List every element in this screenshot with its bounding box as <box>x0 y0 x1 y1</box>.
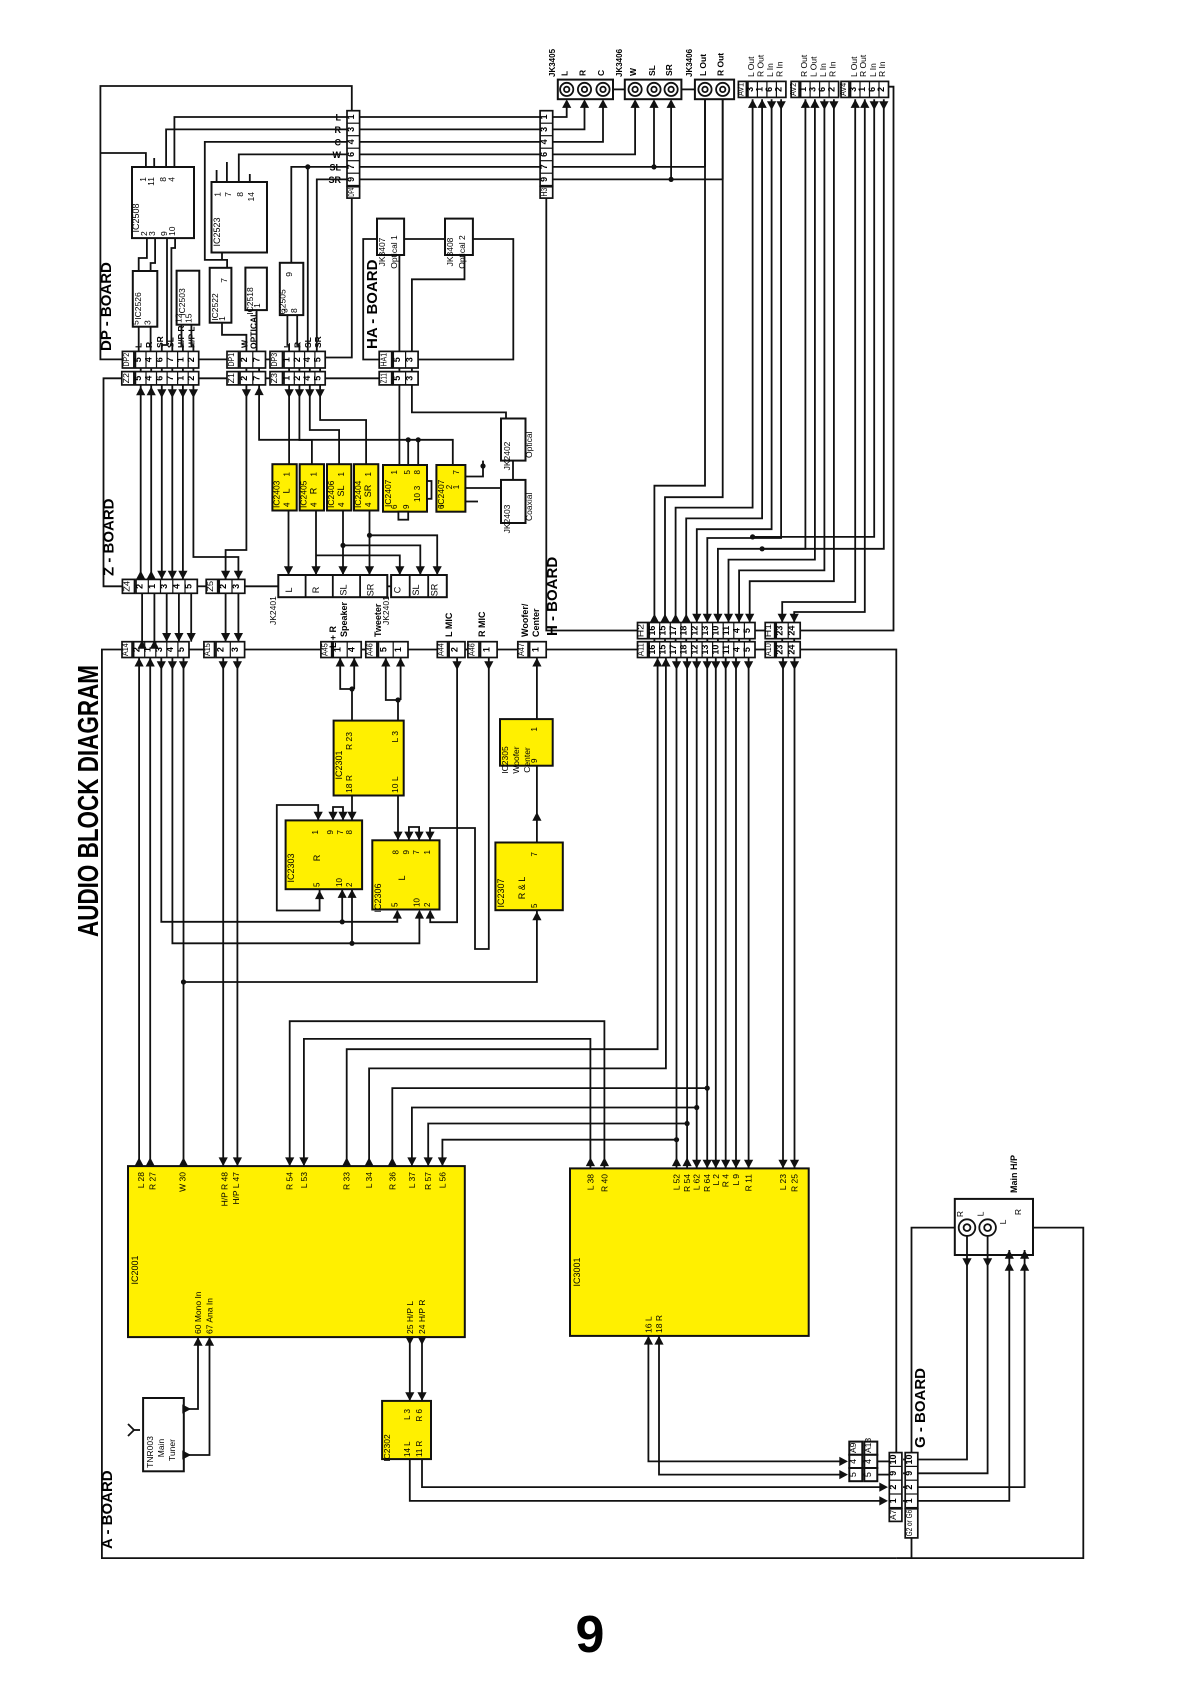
svg-text:4: 4 <box>732 647 742 652</box>
wire A14 cell2 to IC2001 L28 <box>138 658 140 1167</box>
connector A46 (R MIC) <box>468 642 479 658</box>
svg-text:L In: L In <box>765 63 775 77</box>
svg-text:A44: A44 <box>435 643 445 656</box>
wire IC3001 16L to A9 cell4 <box>648 1336 843 1462</box>
svg-text:5: 5 <box>530 903 539 908</box>
svg-text:16: 16 <box>647 626 657 636</box>
svg-text:L 52: L 52 <box>672 1174 682 1191</box>
svg-text:Main H/P: Main H/P <box>1009 1155 1019 1193</box>
svg-text:23: 23 <box>775 645 785 655</box>
svg-text:7: 7 <box>346 164 356 169</box>
svg-text:R 54: R 54 <box>682 1174 692 1192</box>
wire run IC2001 L56 junction <box>442 1140 676 1166</box>
svg-text:L: L <box>976 1211 986 1216</box>
svg-text:L 23: L 23 <box>778 1174 788 1191</box>
svg-text:1: 1 <box>175 357 185 362</box>
svg-text:HA1: HA1 <box>378 353 388 367</box>
wire ties A9-A13-A7 row5 <box>862 1474 864 1476</box>
wire IC2508 pins 1,11 stubs <box>100 153 145 167</box>
svg-text:10 L: 10 L <box>390 776 400 793</box>
svg-text:L 34: L 34 <box>364 1172 374 1189</box>
svg-text:Z2: Z2 <box>121 373 131 384</box>
wire G6 cell9 to Main HP L jack <box>918 1236 988 1473</box>
wire ties DP2-Z2 <box>140 368 142 372</box>
wire IC2508 pin8 to DP4 row R <box>166 129 347 167</box>
svg-text:R MIC: R MIC <box>477 611 487 637</box>
connector A47 <box>518 642 528 658</box>
svg-text:JK2403: JK2403 <box>502 504 512 533</box>
connector Z2 <box>122 372 134 385</box>
IC2405 (R) <box>300 464 324 510</box>
svg-text:L Out: L Out <box>698 54 708 76</box>
wire H3 row9 to SR and R Out <box>553 178 723 180</box>
wire AV4 L In loop <box>753 99 875 537</box>
svg-text:5: 5 <box>133 357 143 362</box>
svg-text:18: 18 <box>679 626 689 636</box>
svg-text:AUDIO BLOCK DIAGRAM: AUDIO BLOCK DIAGRAM <box>73 665 105 937</box>
wire run IC2001 R36 junction <box>392 1088 707 1166</box>
wire A15 cell3 to IC2001 HPL47 <box>236 658 238 1167</box>
connector Z11 <box>379 372 392 385</box>
Z-board frame <box>104 378 123 586</box>
svg-text:R: R <box>578 70 588 76</box>
wire G6 cell10 to Main HP R jack <box>918 1236 967 1460</box>
svg-text:2: 2 <box>876 87 886 92</box>
svg-text:3: 3 <box>404 357 414 362</box>
wire IC2508 pin9 to DP2 cell6 <box>162 238 167 351</box>
wire stub IC2303 pin2 <box>351 890 353 943</box>
IC2306 <box>372 840 439 909</box>
svg-text:7: 7 <box>252 357 262 362</box>
svg-text:10: 10 <box>710 645 720 655</box>
wire JK2402 to JK2403 tie <box>512 461 514 480</box>
svg-text:1: 1 <box>337 471 346 476</box>
svg-text:5: 5 <box>313 357 323 362</box>
connector H2 <box>638 623 648 639</box>
HA-board frame <box>363 239 513 360</box>
IC2505 <box>280 263 304 315</box>
wire IC2303 feedback loop <box>277 805 320 911</box>
svg-text:IC2404: IC2404 <box>353 480 363 508</box>
svg-text:SR: SR <box>430 583 440 596</box>
wire rows DP4 to H3 <box>360 116 540 118</box>
jack group JK3406 <box>695 80 734 100</box>
wire L Out jack down <box>704 99 706 167</box>
svg-text:R 36: R 36 <box>387 1172 397 1190</box>
svg-text:9: 9 <box>904 1471 914 1476</box>
svg-text:7: 7 <box>165 357 175 362</box>
svg-text:4: 4 <box>171 584 181 589</box>
wire run IC2001 R57 junction <box>428 1124 687 1167</box>
wire IC2505 pins 3,8 to DP3 <box>287 315 289 351</box>
antenna symbol <box>128 1424 134 1436</box>
svg-text:R 54: R 54 <box>285 1172 295 1190</box>
wire AV fan 3 <box>676 99 753 622</box>
JK3408 Optical 2 <box>445 219 473 255</box>
connector H1 <box>765 623 775 639</box>
svg-text:SL: SL <box>647 65 657 76</box>
svg-text:L Out: L Out <box>746 56 756 77</box>
svg-text:H/P R 48: H/P R 48 <box>220 1172 230 1207</box>
svg-text:1: 1 <box>390 469 399 474</box>
svg-text:Center: Center <box>531 608 541 637</box>
wire AV fan 8 <box>729 99 815 622</box>
wire jack group links <box>613 88 625 90</box>
svg-text:C: C <box>596 70 606 76</box>
svg-text:HA - BOARD: HA - BOARD <box>364 259 381 349</box>
svg-text:6: 6 <box>154 357 164 362</box>
svg-text:6: 6 <box>817 87 827 92</box>
wire stub IC2303 pin10 <box>341 890 343 922</box>
svg-text:14 L: 14 L <box>403 1441 412 1457</box>
svg-text:6: 6 <box>390 504 399 509</box>
svg-text:3: 3 <box>147 231 157 236</box>
connector AV4 <box>841 81 849 97</box>
jack group JK3405 <box>558 80 613 100</box>
svg-text:SR: SR <box>363 484 373 497</box>
svg-text:Main: Main <box>156 1439 166 1458</box>
connector HA1 <box>379 351 392 368</box>
svg-text:JK3406: JK3406 <box>685 48 694 77</box>
wire A11 cell11 to IC3001 R4 <box>725 658 727 1169</box>
svg-text:17: 17 <box>668 645 678 655</box>
wire IC2307 pin5 run <box>184 910 537 982</box>
wire IC2406 to JK2401 SL and SL2 <box>342 511 344 576</box>
svg-text:A9: A9 <box>848 1442 858 1453</box>
wire A11 cell18 to IC3001 R54 <box>686 658 688 1169</box>
IC2526 <box>133 271 158 327</box>
svg-text:10: 10 <box>167 226 177 236</box>
wire IC2001 HP L to IC2302 <box>409 1337 411 1401</box>
JK3407 Optical 1 <box>377 219 404 255</box>
svg-text:9: 9 <box>284 272 294 277</box>
svg-text:L MIC: L MIC <box>444 612 454 637</box>
svg-text:L 2: L 2 <box>711 1174 721 1186</box>
svg-text:9: 9 <box>530 758 539 763</box>
svg-text:1: 1 <box>282 376 292 381</box>
wire A46 to IC2301 L3 <box>386 658 398 721</box>
wire IC2302 R6 to A7 cell1 <box>410 1459 886 1501</box>
wire A11 cell12 to IC3001 L62 <box>696 658 698 1169</box>
svg-text:6: 6 <box>154 376 164 381</box>
svg-text:4: 4 <box>364 502 373 507</box>
wire IC2405 to JK2401 R and C <box>315 511 317 576</box>
svg-text:Z5: Z5 <box>205 581 215 592</box>
svg-text:23: 23 <box>775 626 785 636</box>
svg-text:L 9: L 9 <box>731 1174 741 1186</box>
wire IC2407-2 pin6 stub <box>466 501 479 503</box>
svg-text:3: 3 <box>230 647 240 652</box>
svg-text:DP - BOARD: DP - BOARD <box>98 262 115 351</box>
wire IC2508 pin3 to IC2526 <box>151 238 156 271</box>
svg-text:R: R <box>955 1211 965 1217</box>
svg-text:3: 3 <box>346 127 356 132</box>
wire A44 to IC2306 pin2 <box>430 658 457 923</box>
svg-text:IC2526: IC2526 <box>133 292 143 320</box>
svg-text:1: 1 <box>175 376 185 381</box>
wire IC2508 pin4 to DP4 row L <box>174 117 347 167</box>
JK2401 speaker connector <box>278 575 387 597</box>
svg-text:C: C <box>392 586 402 593</box>
wire IC2404 to JK2401 SR and SR2 <box>369 511 371 576</box>
svg-text:AV1: AV1 <box>735 83 745 96</box>
svg-text:7: 7 <box>223 192 233 197</box>
svg-text:IC2523: IC2523 <box>212 217 222 246</box>
wire Z1 cell2 to Z5 cell2 <box>226 385 247 580</box>
svg-text:3: 3 <box>807 87 817 92</box>
wire Z1 cell7 OPTICAL to IC2407 DACs <box>259 385 453 465</box>
wire A45 to IC2301 R23 <box>340 658 352 721</box>
wire ties DP1-Z1 <box>245 368 247 372</box>
svg-text:5: 5 <box>313 376 323 381</box>
svg-text:Optical 2: Optical 2 <box>457 235 467 269</box>
wire AV fan 12 <box>794 99 865 622</box>
svg-text:L 56: L 56 <box>437 1172 447 1189</box>
wire G6 cell1 to Main HP L arrow <box>918 1250 1010 1501</box>
connector A13 <box>864 1442 877 1455</box>
svg-text:15: 15 <box>658 626 668 636</box>
svg-text:R 57: R 57 <box>423 1172 433 1190</box>
svg-text:Speaker: Speaker <box>339 601 349 637</box>
IC2307 <box>495 843 562 911</box>
svg-text:4: 4 <box>848 1459 858 1464</box>
wire run IC2001 L53 to IC3001 L38 <box>304 1039 591 1169</box>
wire A46b to IC2306 pin1 loop <box>430 658 489 950</box>
svg-text:IC2307: IC2307 <box>496 878 506 907</box>
svg-text:4: 4 <box>166 177 176 182</box>
wire AV fan 2 <box>665 99 723 622</box>
svg-text:67 Ana In: 67 Ana In <box>205 1298 215 1334</box>
connector AV1 <box>738 81 746 97</box>
svg-text:R: R <box>309 487 319 494</box>
svg-text:2: 2 <box>826 87 836 92</box>
svg-text:2: 2 <box>292 357 302 362</box>
svg-text:4: 4 <box>144 376 154 381</box>
svg-text:6: 6 <box>346 152 356 157</box>
wire AV fan 1 <box>654 99 705 622</box>
svg-text:5: 5 <box>131 320 141 325</box>
svg-text:R In: R In <box>827 61 837 77</box>
wire IC2508 pin10 to DP2 cell7 <box>171 238 175 351</box>
svg-text:IC2306: IC2306 <box>373 883 383 912</box>
svg-text:13: 13 <box>700 626 710 636</box>
svg-text:11: 11 <box>721 626 731 636</box>
connector A9 <box>849 1442 862 1455</box>
svg-text:7: 7 <box>412 849 421 854</box>
wire A10 cell24 to IC3001 R25 <box>794 658 796 1169</box>
svg-text:11: 11 <box>146 177 156 186</box>
svg-text:JK2401: JK2401 <box>268 596 278 625</box>
wire A15 cell2 to IC2001 HPR48 <box>222 658 224 1167</box>
svg-text:SL: SL <box>336 485 346 496</box>
svg-text:H1: H1 <box>763 624 773 638</box>
svg-text:A46: A46 <box>364 643 374 656</box>
svg-text:SR: SR <box>664 64 674 76</box>
svg-text:5: 5 <box>403 469 412 474</box>
wire TNR003 to IC2001 Ana In <box>184 1337 210 1455</box>
wire Z3 cell5 to IC2404 <box>320 385 366 464</box>
wire IC2518 pin1 to DP1 cell7 <box>256 310 258 351</box>
Main H/P jack box <box>955 1199 1033 1255</box>
IC2508 <box>132 167 194 238</box>
svg-text:3: 3 <box>143 320 153 325</box>
IC2523 <box>212 182 268 253</box>
svg-text:A15: A15 <box>202 643 212 656</box>
svg-text:DP1: DP1 <box>226 353 236 367</box>
svg-text:A14: A14 <box>120 643 130 656</box>
svg-text:3: 3 <box>404 376 414 381</box>
connector A15 <box>204 642 215 658</box>
svg-text:2: 2 <box>186 357 196 362</box>
connector DP3 <box>270 351 283 368</box>
svg-text:8: 8 <box>392 849 401 854</box>
IC2503 <box>177 271 200 325</box>
svg-text:6: 6 <box>437 504 446 509</box>
svg-text:7: 7 <box>219 278 229 283</box>
jack group JK3406 <box>625 80 682 100</box>
connector A44 <box>437 642 447 658</box>
svg-text:2: 2 <box>423 902 432 907</box>
svg-text:R & L: R & L <box>517 877 527 900</box>
svg-text:4: 4 <box>144 357 154 362</box>
svg-text:8: 8 <box>235 192 245 197</box>
svg-text:2: 2 <box>239 376 249 381</box>
svg-text:JK3405: JK3405 <box>548 48 557 77</box>
wire JK3408 to HA1 cell3 <box>412 255 465 351</box>
svg-text:10: 10 <box>335 878 344 887</box>
svg-text:IC2302: IC2302 <box>382 1434 392 1462</box>
JK2402 Optical <box>501 419 526 461</box>
wire A10 cell23 to IC3001 L23 <box>782 658 784 1169</box>
svg-text:3: 3 <box>539 127 549 132</box>
IC2305 Woofer/Center <box>500 719 553 766</box>
TNR003 Main Tuner <box>143 1398 184 1471</box>
svg-text:R: R <box>311 586 321 593</box>
svg-text:1: 1 <box>282 357 292 362</box>
wire Z11 cell5 to IC2407 pin1 <box>398 385 400 465</box>
svg-text:R Out: R Out <box>858 54 868 77</box>
svg-text:5: 5 <box>742 628 752 633</box>
svg-text:A46: A46 <box>466 643 476 656</box>
svg-text:G - BOARD: G - BOARD <box>912 1368 929 1448</box>
wire A11 cell13 to IC3001 R64 <box>706 658 708 1169</box>
svg-text:4: 4 <box>337 502 346 507</box>
wire ties H1-A10 <box>781 639 783 642</box>
wire ties H2-A11 <box>653 639 655 642</box>
svg-text:W 30: W 30 <box>178 1172 188 1192</box>
svg-text:2: 2 <box>135 584 145 589</box>
svg-text:A10: A10 <box>763 643 773 656</box>
wire G6 cell2 to Main HP R arrow <box>918 1250 1025 1487</box>
svg-text:Tuner: Tuner <box>167 1439 177 1461</box>
svg-text:9: 9 <box>346 177 356 182</box>
svg-text:1: 1 <box>481 647 491 652</box>
wire AV fan 9 <box>739 99 824 622</box>
wire IC2407-2 pin2 to JK2403 <box>466 487 502 489</box>
svg-text:G2 or G6: G2 or G6 <box>904 1510 914 1537</box>
connector AV2 <box>791 81 799 97</box>
svg-text:AV2: AV2 <box>788 83 798 96</box>
svg-text:2: 2 <box>450 647 460 652</box>
wire bus Z2 to Z4 <box>140 385 142 580</box>
svg-text:L: L <box>397 875 407 880</box>
svg-text:12: 12 <box>689 626 699 636</box>
svg-text:24: 24 <box>787 645 797 655</box>
svg-text:2: 2 <box>774 87 784 92</box>
svg-text:11 R: 11 R <box>415 1440 424 1457</box>
wire AV fan 11 <box>782 99 855 622</box>
svg-text:JK3408: JK3408 <box>445 237 455 266</box>
wire TNR003 to IC2001 Mono In <box>184 1337 198 1409</box>
svg-text:A47: A47 <box>516 643 526 656</box>
svg-text:SL: SL <box>411 584 421 595</box>
wire IC2526 pins to DP2 <box>138 327 140 352</box>
wire AV fan 4 <box>686 99 762 622</box>
IC2403 (L) <box>272 464 296 510</box>
svg-text:18 R: 18 R <box>654 1315 664 1333</box>
svg-text:16 L: 16 L <box>643 1316 653 1333</box>
svg-text:R 6: R 6 <box>415 1408 424 1421</box>
svg-text:DP4: DP4 <box>346 188 356 197</box>
wire A14 cell1 to IC2001 R27 <box>149 658 151 1167</box>
wire IC2303 cap pins 9-7 <box>333 807 343 820</box>
svg-text:R 25: R 25 <box>790 1174 800 1192</box>
svg-text:7: 7 <box>539 164 549 169</box>
svg-text:Z - BOARD: Z - BOARD <box>101 498 118 576</box>
svg-text:4: 4 <box>282 502 291 507</box>
svg-text:Woofer: Woofer <box>511 746 521 773</box>
wire HA1 cell5 to JK3407 <box>398 255 400 351</box>
svg-text:2: 2 <box>239 357 249 362</box>
svg-text:Woofer/: Woofer/ <box>520 603 530 637</box>
wire Z3 cell1 to IC2403 <box>288 385 290 464</box>
wire IC2301 10L to IC2306 pin8 <box>397 796 399 841</box>
svg-text:Optical 1: Optical 1 <box>389 235 399 269</box>
svg-text:A7: A7 <box>888 1510 898 1520</box>
IC2522 <box>210 268 232 323</box>
svg-text:W: W <box>628 67 638 76</box>
svg-text:Optical: Optical <box>524 431 534 458</box>
svg-text:L 53: L 53 <box>299 1172 309 1189</box>
svg-text:R Out: R Out <box>799 54 809 77</box>
connector Z5 <box>206 579 218 593</box>
svg-text:11: 11 <box>721 645 731 655</box>
svg-text:3: 3 <box>413 485 422 490</box>
svg-text:5: 5 <box>378 647 388 652</box>
svg-text:6: 6 <box>539 152 549 157</box>
svg-text:AV4: AV4 <box>838 83 848 96</box>
svg-text:R 33: R 33 <box>342 1172 352 1190</box>
svg-text:1: 1 <box>310 471 319 476</box>
svg-text:H3: H3 <box>539 187 549 196</box>
wire IC2407-2 pin1 to JK2402 <box>466 461 484 477</box>
svg-text:SR: SR <box>155 336 165 348</box>
IC3001 <box>570 1168 809 1336</box>
svg-text:H/P L 47: H/P L 47 <box>231 1172 241 1205</box>
wire bus Z5 to A15 <box>225 593 227 641</box>
svg-text:5: 5 <box>848 1472 858 1477</box>
svg-text:R: R <box>1013 1209 1023 1215</box>
wire IC2522 pin1 to DP1 cell2 <box>222 323 246 352</box>
svg-text:24 H/P R: 24 H/P R <box>417 1300 427 1334</box>
svg-text:Z3: Z3 <box>269 373 279 384</box>
svg-text:8: 8 <box>345 829 354 834</box>
svg-text:Z1: Z1 <box>226 373 236 384</box>
wire DP3 pin4 up to SL row <box>307 167 309 352</box>
wire Z3 cell2 to IC2405 <box>299 385 312 464</box>
svg-text:Coaxial: Coaxial <box>524 493 534 521</box>
svg-text:1: 1 <box>393 647 403 652</box>
